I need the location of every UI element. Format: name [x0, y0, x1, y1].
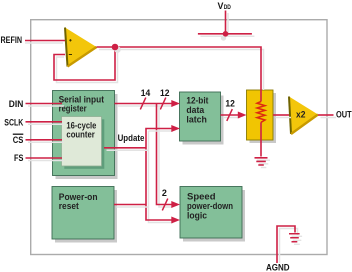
wire DIN input: [26, 104, 65, 107]
16-cycle counter box: [62, 117, 105, 169]
wire SCLK input: [26, 122, 65, 125]
svg-text:register: register: [59, 104, 87, 114]
border frame: [31, 20, 327, 255]
svg-text:SCLK: SCLK: [4, 117, 23, 128]
resistor R1 zigzag: [257, 102, 265, 123]
label 14: [141, 88, 151, 98]
wire update strobe to latch: [146, 125, 180, 224]
label CS (active low, overline): [13, 134, 24, 146]
svg-text:FS: FS: [14, 153, 23, 164]
wire REFIN input: [25, 41, 65, 44]
svg-text:12: 12: [160, 88, 170, 98]
svg-text:12: 12: [225, 99, 235, 109]
svg-text:reset: reset: [59, 201, 79, 211]
label DIN: [9, 99, 24, 110]
bus slash 14: [140, 98, 146, 110]
wire latch output bus to resistor network: [221, 112, 247, 119]
svg-text:V: V: [218, 1, 224, 11]
wire power-down bits branch: [157, 104, 181, 209]
wire CS input: [26, 140, 65, 143]
12-bit data latch box U4: [180, 92, 224, 145]
wire AGND with ground symbol: [277, 226, 302, 263]
svg-text:CS: CS: [13, 135, 24, 146]
wire op-amp output to resistor network: [97, 47, 264, 102]
label 12 latch output: [225, 99, 235, 109]
label AGND: [266, 263, 290, 272]
node VDD rail junction: [221, 31, 229, 41]
wire x2 output to OUT: [318, 115, 336, 118]
svg-text:14: 14: [141, 88, 151, 98]
svg-text:AGND: AGND: [266, 263, 290, 272]
serial input register box U2: [53, 91, 118, 180]
node output of op-amp U1: [112, 44, 121, 53]
svg-text:counter: counter: [66, 130, 95, 140]
svg-text:12-bit: 12-bit: [186, 95, 208, 105]
power-on reset box U3: [52, 187, 117, 243]
op-amp U6 x2 output amplifier: [289, 97, 318, 135]
label 2: [162, 188, 167, 198]
wire FS input: [26, 158, 65, 161]
bus slash 2: [162, 199, 168, 211]
wire serial register data bus to latch: [115, 100, 181, 107]
svg-text:logic: logic: [187, 211, 207, 221]
svg-text:DIN: DIN: [9, 99, 24, 110]
svg-text:2: 2: [162, 188, 167, 198]
label 12: [160, 88, 170, 98]
svg-text:REFIN: REFIN: [1, 35, 23, 46]
svg-text:DD: DD: [224, 4, 231, 11]
wire update from serial register: [104, 148, 149, 151]
speed power-down logic box U5: [180, 187, 245, 242]
wire resistor to ground: [260, 122, 262, 156]
label Update: [118, 133, 145, 143]
svg-text:OUT: OUT: [336, 110, 352, 121]
resistor network box R1: [247, 90, 277, 143]
svg-text:x2: x2: [296, 109, 306, 119]
bus slash 12: [160, 98, 166, 110]
ground below resistor network: [255, 158, 271, 168]
label FS: [14, 153, 23, 164]
label OUT: [336, 110, 352, 121]
bus slash 12 latch output: [227, 109, 233, 121]
svg-text:Speed: Speed: [187, 192, 216, 202]
label SCLK: [4, 117, 23, 128]
wire op-amp feedback loop: [54, 47, 118, 83]
wire power-on reset output: [114, 205, 149, 208]
svg-text:Update: Update: [118, 133, 145, 143]
wire resistor output to x2 amp: [273, 115, 291, 118]
VDD supply stub: [198, 11, 255, 37]
svg-text:latch: latch: [186, 115, 207, 125]
label REFIN: [1, 35, 23, 46]
op-amp U1: [65, 28, 97, 67]
svg-text:data: data: [186, 105, 205, 115]
label VDD: [218, 1, 231, 11]
